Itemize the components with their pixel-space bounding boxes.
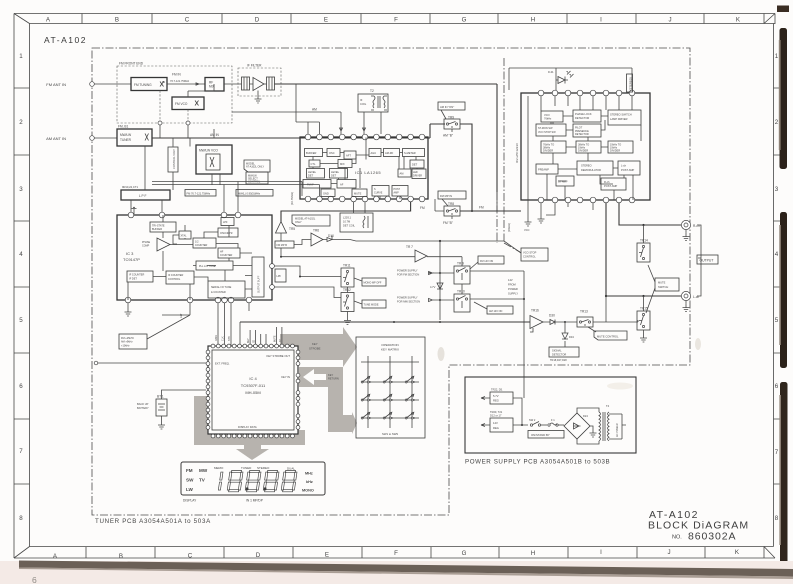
svg-text:STEREO SWITCH: STEREO SWITCH bbox=[610, 113, 632, 117]
svg-text:MONO: MONO bbox=[302, 489, 314, 493]
label boxed fm range bbox=[185, 190, 216, 197]
wire FM MPX from IC1 bbox=[281, 202, 425, 222]
svg-text:14V: 14V bbox=[493, 421, 498, 425]
svg-text:F: F bbox=[394, 17, 398, 24]
IC4 bottom pins bbox=[211, 434, 294, 438]
svg-text:9R10,22,CT1: 9R10,22,CT1 bbox=[122, 185, 138, 189]
svg-text:FM MP IN: FM MP IN bbox=[440, 194, 452, 198]
svg-text:4: 4 bbox=[19, 251, 23, 258]
wire vco connections bbox=[173, 129, 220, 185]
svg-text:KEY IN: KEY IN bbox=[281, 375, 290, 379]
power supply pcb outline bbox=[465, 377, 636, 453]
lpf box right of IC3 bbox=[275, 269, 286, 282]
svg-text:TR6: TR6 bbox=[313, 229, 319, 233]
svg-text:STEREO: STEREO bbox=[581, 164, 592, 168]
switch TR9 am ant bbox=[443, 116, 460, 138]
svg-text:14V: 14V bbox=[508, 278, 513, 282]
svg-text:TC9307F-011: TC9307F-011 bbox=[241, 383, 266, 388]
MW/LW VCO block bbox=[196, 145, 232, 174]
svg-text:OPERATION: OPERATION bbox=[381, 343, 398, 347]
IC1 level det 1 bbox=[307, 169, 325, 179]
ground IF filter bbox=[255, 91, 262, 104]
svg-text:VCC: VCC bbox=[524, 228, 530, 232]
IC3 hf counter bbox=[218, 248, 240, 258]
amp TR7 bbox=[406, 245, 427, 262]
battery BT1 bbox=[137, 395, 167, 417]
IC1 agc block bbox=[369, 149, 381, 157]
IC1 fm if block bbox=[303, 180, 331, 189]
corner diagonal bottom-right bbox=[764, 547, 775, 559]
scan binding bar top mark bbox=[777, 6, 789, 13]
zener D34 bbox=[562, 321, 574, 344]
mixer block MIX bbox=[205, 78, 224, 92]
svg-text:AFT: AFT bbox=[346, 154, 351, 158]
svg-text:FM TUNING: FM TUNING bbox=[134, 83, 152, 87]
IC2 L-ch post amp bbox=[618, 161, 640, 175]
wire TR5 to fm mp b bbox=[280, 233, 282, 241]
svg-text:FM: FM bbox=[186, 468, 193, 473]
svg-text:4: 4 bbox=[775, 251, 779, 258]
scan binding bar 1 bbox=[779, 28, 787, 169]
svg-text:5: 5 bbox=[775, 317, 779, 324]
wire top loop bbox=[509, 68, 632, 90]
callout am 14v on bbox=[474, 302, 513, 314]
svg-text:VCO: VCO bbox=[544, 113, 550, 117]
IC2 top pins bbox=[538, 90, 635, 96]
white key return arrow bbox=[303, 369, 339, 385]
svg-text:TR5: TR5 bbox=[289, 227, 295, 231]
svg-text:POST AMP: POST AMP bbox=[621, 168, 634, 172]
svg-text:IC 3: IC 3 bbox=[126, 251, 134, 256]
svg-text:NO.: NO. bbox=[672, 535, 682, 541]
svg-text:4.7V: 4.7V bbox=[430, 285, 436, 289]
note model AT-A102L only bbox=[244, 160, 270, 172]
wire TR9 out bbox=[460, 124, 472, 211]
wire IC2 pin3 stub bbox=[546, 203, 555, 215]
svg-text:SWITCH: SWITCH bbox=[658, 285, 668, 289]
svg-text:AM:+9kHz: AM:+9kHz bbox=[121, 341, 133, 344]
IC2 bottom pins bbox=[538, 197, 635, 203]
regulator 5V block bbox=[481, 388, 513, 405]
svg-text:TR18,D27,D28: TR18,D27,D28 bbox=[550, 359, 567, 362]
IC3 output buffer vertical bbox=[252, 257, 264, 297]
svg-text:TR 7: TR 7 bbox=[406, 245, 413, 249]
svg-text:R-ch: R-ch bbox=[604, 180, 610, 184]
callout AM IN ON bbox=[438, 102, 465, 119]
FM FRONT END dashed enclosure bbox=[117, 62, 232, 124]
note model only IC1 bbox=[292, 215, 330, 226]
IC3 serial io tune counter bbox=[208, 281, 245, 298]
ground IC3 bottom left bbox=[125, 303, 132, 316]
svg-text:D30: D30 bbox=[549, 314, 555, 318]
title number bbox=[672, 531, 736, 543]
IC2 R-ch post amp bbox=[601, 178, 626, 190]
freq note box bbox=[119, 315, 190, 349]
svg-text:AMP: AMP bbox=[394, 192, 400, 195]
svg-text:KEY MATRIX: KEY MATRIX bbox=[381, 348, 399, 352]
svg-text:ST AMP: ST AMP bbox=[558, 180, 568, 184]
scan binding bar 3 bbox=[779, 382, 787, 578]
IC3 right pins bbox=[270, 264, 275, 290]
svg-text:(STEREO): (STEREO) bbox=[629, 77, 633, 90]
svg-text:C: C bbox=[188, 553, 193, 560]
svg-text:KEY: KEY bbox=[328, 373, 333, 377]
display digit 8 first bbox=[227, 471, 243, 492]
svg-text:B: B bbox=[115, 17, 119, 24]
key switch SW6 bbox=[405, 394, 415, 401]
IC2 38-19 divider bbox=[576, 141, 601, 153]
key switch SW3 bbox=[405, 376, 415, 383]
MW/LW tuner block bbox=[117, 125, 152, 147]
svg-text:POST AMP: POST AMP bbox=[604, 184, 617, 188]
svg-text:MW: MW bbox=[199, 468, 208, 473]
svg-text:D12 or 17: D12 or 17 bbox=[490, 414, 502, 418]
svg-text:MW/LW VCO: MW/LW VCO bbox=[199, 149, 218, 153]
IC1 det block bbox=[410, 160, 424, 168]
IC3 phase comp triangle bbox=[142, 238, 170, 251]
svg-text:MH-05M: MH-05M bbox=[245, 390, 260, 395]
svg-text:COUNTER: COUNTER bbox=[195, 244, 208, 247]
svg-text:2: 2 bbox=[19, 119, 23, 126]
svg-text:IF DET: IF DET bbox=[129, 278, 137, 281]
svg-text:IF COUNTER: IF COUNTER bbox=[168, 274, 183, 277]
svg-text:COUNTER: COUNTER bbox=[220, 254, 233, 257]
svg-text:CTL: CTL bbox=[311, 162, 316, 166]
wire FM IF out bbox=[275, 84, 498, 192]
gray display arrowhead bbox=[244, 445, 261, 450]
svg-text:TR8: TR8 bbox=[448, 202, 454, 206]
svg-text:LEVEL: LEVEL bbox=[308, 170, 317, 174]
label power supply fm section bbox=[397, 269, 440, 277]
key matrix grid lines bbox=[361, 356, 419, 428]
svg-text:AM IN: AM IN bbox=[210, 133, 220, 137]
key switch SW9 bbox=[405, 412, 415, 419]
svg-text:IC2 uPC1223V: IC2 uPC1223V bbox=[515, 143, 519, 163]
wire AM label run bbox=[232, 108, 341, 113]
left grid tick marks bbox=[14, 88, 30, 484]
junction circles front end bottom bbox=[158, 121, 190, 138]
svg-text:IF FILTER: IF FILTER bbox=[247, 64, 262, 68]
svg-text:3: 3 bbox=[19, 186, 23, 193]
svg-text:FM 76.7-121.75MHz: FM 76.7-121.75MHz bbox=[187, 191, 211, 195]
svg-text:L-ch: L-ch bbox=[621, 164, 627, 168]
svg-text:F: F bbox=[394, 550, 398, 557]
terminal AM ANT IN bbox=[46, 136, 94, 141]
svg-text:E: E bbox=[325, 552, 329, 559]
ceramic filter 1 bbox=[242, 77, 250, 90]
svg-text:KEY: KEY bbox=[248, 338, 250, 343]
wire mute rail bbox=[240, 321, 530, 346]
svg-text:8: 8 bbox=[19, 515, 23, 522]
svg-text:OSC: OSC bbox=[329, 151, 335, 155]
wire vco control bbox=[160, 91, 188, 124]
svg-text:VCO STOP SW: VCO STOP SW bbox=[538, 131, 556, 134]
svg-text:DET: DET bbox=[308, 174, 314, 178]
svg-text:FOR FM SECTION: FOR FM SECTION bbox=[397, 273, 419, 277]
terminal FM ANT IN bbox=[46, 82, 94, 87]
wire fm if to TR8 bbox=[435, 192, 497, 211]
terminal L-ch output bbox=[681, 291, 699, 311]
svg-text:FM FRONT END: FM FRONT END bbox=[119, 62, 144, 66]
label stereo vertical bbox=[627, 74, 633, 92]
svg-text:CURVE: CURVE bbox=[374, 192, 383, 195]
svg-text:DISPLAY DATA: DISPLAY DATA bbox=[238, 425, 257, 429]
wire to IC4 left bbox=[94, 361, 206, 365]
svg-text:T2: T2 bbox=[370, 89, 374, 93]
svg-text:DIVIDER: DIVIDER bbox=[610, 150, 620, 153]
key switch SW8 bbox=[383, 412, 393, 419]
IC3 tri-state buffer bbox=[150, 222, 176, 232]
svg-text:IC 4: IC 4 bbox=[249, 376, 257, 381]
svg-text:AM ANT IN: AM ANT IN bbox=[46, 136, 66, 141]
wire lpf down bbox=[131, 146, 173, 214]
switch TR10 am14v bbox=[454, 290, 470, 313]
signal detector box bbox=[549, 344, 579, 362]
svg-text:MUTE: MUTE bbox=[275, 335, 277, 342]
svg-text:AC POWER: AC POWER bbox=[616, 423, 619, 437]
label power supply mw section bbox=[397, 296, 440, 304]
IC2 st amp bbox=[556, 176, 574, 186]
IC4 left pins bbox=[206, 350, 210, 429]
callout FM MP IN bbox=[438, 191, 466, 206]
callout tune mode bbox=[354, 300, 386, 308]
display panel body bbox=[181, 462, 325, 495]
svg-text:STROBE: STROBE bbox=[309, 346, 321, 350]
switch TR12 bbox=[341, 288, 354, 312]
svg-text:EXT. FREQ.: EXT. FREQ. bbox=[215, 362, 230, 366]
svg-text:I: I bbox=[600, 17, 602, 24]
svg-text:76.7-121.75MHz: 76.7-121.75MHz bbox=[170, 79, 190, 83]
label from power supply bbox=[508, 278, 518, 296]
svg-text:FM, B1: FM, B1 bbox=[118, 125, 128, 129]
svg-text:FOR MW SECTION: FOR MW SECTION bbox=[397, 300, 420, 304]
IF filter dashed enclosure bbox=[238, 64, 281, 97]
svg-text:VCO STOP: VCO STOP bbox=[523, 251, 537, 255]
wire TR7 run bbox=[280, 256, 462, 266]
svg-text:TR14: TR14 bbox=[640, 239, 648, 243]
svg-text:DIVIDER: DIVIDER bbox=[543, 150, 553, 153]
svg-text:L203.1: L203.1 bbox=[343, 216, 351, 220]
IC1 LA1265 body bbox=[300, 137, 428, 199]
top grid tick marks bbox=[82, 14, 704, 24]
gray bottom band bbox=[194, 430, 305, 445]
svg-text:BT 1: BT 1 bbox=[157, 395, 164, 399]
IC2 76-38 divider bbox=[541, 141, 566, 153]
wire TR11 TR12 feeds bbox=[274, 266, 351, 325]
svg-text:DETECTOR: DETECTOR bbox=[552, 352, 566, 356]
switch TR14 bbox=[637, 239, 650, 263]
switch SW2 bbox=[529, 418, 547, 426]
svg-text:BATTERY: BATTERY bbox=[137, 406, 149, 410]
svg-text:G: G bbox=[462, 17, 467, 24]
wire if coil to IC1 pins bbox=[340, 112, 382, 134]
svg-text:POWER: POWER bbox=[508, 287, 518, 291]
IC4 name label bbox=[241, 376, 266, 395]
svg-text:OUTPUT BUFF: OUTPUT BUFF bbox=[258, 275, 261, 293]
IC3 bottom pins bbox=[125, 297, 252, 303]
svg-text:TR12: TR12 bbox=[343, 288, 351, 292]
corner diagonal bottom-left bbox=[14, 547, 30, 559]
switch TR13 bbox=[565, 310, 638, 328]
wire fm mp b down bbox=[281, 240, 311, 257]
svg-text:J: J bbox=[668, 17, 671, 24]
display digit 1 bbox=[218, 472, 223, 490]
svg-text:DATA: DATA bbox=[215, 335, 218, 341]
svg-text:ALT: ALT bbox=[179, 313, 183, 318]
svg-text:D10: D10 bbox=[328, 234, 334, 238]
svg-text:SUPPLY: SUPPLY bbox=[508, 292, 518, 296]
svg-text:IN 1 MP/DP: IN 1 MP/DP bbox=[246, 499, 263, 503]
control voltage block bbox=[168, 147, 178, 172]
IC3 osc block bbox=[218, 228, 238, 237]
IC2 stereo switch lamp driver bbox=[608, 110, 641, 125]
svg-text:ONLY: ONLY bbox=[295, 221, 302, 224]
IC4 top stubs bbox=[248, 327, 282, 344]
key switch SW2 bbox=[383, 376, 393, 383]
output bracket bbox=[697, 225, 718, 296]
svg-text:I: I bbox=[600, 549, 602, 556]
svg-text:FM "B": FM "B" bbox=[443, 221, 453, 225]
svg-text:DET COIL: DET COIL bbox=[343, 224, 355, 228]
key switch SW1 bbox=[361, 376, 371, 383]
bottom band soft edge bbox=[19, 568, 793, 580]
display unit labels right bbox=[302, 472, 314, 493]
paper smudge marks bbox=[438, 338, 702, 390]
IC1 osc block bbox=[327, 149, 340, 157]
svg-text:XTAL: XTAL bbox=[181, 235, 188, 238]
switch TR11 bbox=[341, 264, 354, 288]
svg-text:8: 8 bbox=[775, 515, 779, 522]
IC3 label bbox=[123, 251, 140, 262]
svg-text:FM VCO: FM VCO bbox=[175, 102, 188, 106]
svg-text:AM-RF: AM-RF bbox=[385, 151, 394, 155]
display digit 8 third bbox=[263, 471, 279, 492]
mute control box bbox=[588, 327, 627, 340]
IC3 top pins bbox=[128, 212, 241, 218]
IC3 pll lo tune bbox=[196, 261, 233, 270]
svg-text:AM: AM bbox=[400, 172, 404, 176]
svg-text:FM 14V ON: FM 14V ON bbox=[480, 260, 493, 263]
svg-text:7: 7 bbox=[775, 449, 779, 456]
svg-text:& COUNTER: & COUNTER bbox=[211, 291, 226, 294]
key switch SW4 bbox=[361, 394, 371, 401]
top grid letters A-K bbox=[46, 17, 741, 24]
IC1 am if block bbox=[337, 180, 356, 189]
svg-text:D: D bbox=[255, 17, 260, 24]
IC1 ctl block bbox=[309, 160, 320, 167]
svg-text:DRIVER: DRIVER bbox=[413, 175, 422, 178]
callout fm mp b bbox=[275, 241, 294, 248]
svg-text:KEY STROBE OUT: KEY STROBE OUT bbox=[266, 354, 290, 358]
svg-text:TR22, D5.: TR22, D5. bbox=[491, 388, 503, 392]
svg-text:D24: D24 bbox=[583, 414, 588, 418]
IC4 TC9307F body bbox=[208, 346, 298, 434]
svg-text:CONTROL VOLT: CONTROL VOLT bbox=[172, 149, 176, 169]
svg-text:LPF: LPF bbox=[277, 275, 282, 278]
svg-text:(19kHz): (19kHz) bbox=[507, 223, 511, 232]
switch TR15 bbox=[637, 307, 650, 343]
label boxed mw range bbox=[236, 190, 273, 197]
wire bus IC3 to IC4 bbox=[215, 303, 249, 346]
IC1 led driver block bbox=[412, 169, 426, 179]
wire supply rail above IC3 bbox=[152, 182, 319, 215]
svg-text:6: 6 bbox=[19, 383, 23, 390]
svg-text:DISPLAY: DISPLAY bbox=[183, 499, 197, 503]
amp TR5 bbox=[276, 222, 296, 234]
wire mix to filter bbox=[224, 83, 267, 85]
svg-text:AF: AF bbox=[340, 183, 344, 187]
svg-text:D-01: D-01 bbox=[548, 70, 554, 74]
svg-text:SERIAL I/O TUNE: SERIAL I/O TUNE bbox=[211, 286, 232, 289]
vco stop control box bbox=[521, 248, 548, 261]
svg-text:TUNE MODE: TUNE MODE bbox=[364, 304, 379, 307]
svg-text:SW1 to SW9: SW1 to SW9 bbox=[382, 432, 398, 436]
svg-text:TUNER: TUNER bbox=[120, 138, 132, 142]
IC4 right pins bbox=[296, 350, 300, 429]
svg-text:KEY: KEY bbox=[312, 342, 318, 346]
svg-text:OUTPUT: OUTPUT bbox=[700, 259, 714, 263]
svg-text:MIX: MIX bbox=[340, 162, 345, 166]
svg-text:CONTROL: CONTROL bbox=[168, 278, 181, 281]
key switch SW7 bbox=[361, 412, 371, 419]
svg-text:MHz: MHz bbox=[305, 472, 313, 476]
svg-text:TUNER PCB A3054A501A to 50: TUNER PCB A3054A501A to 503A bbox=[95, 518, 211, 525]
svg-text:MUTE: MUTE bbox=[354, 191, 362, 195]
svg-text:IF COUNTER: IF COUNTER bbox=[129, 274, 144, 277]
IC1 post amp block bbox=[392, 186, 408, 197]
svg-text:LPF: LPF bbox=[223, 221, 228, 224]
svg-text:1: 1 bbox=[19, 53, 23, 60]
ground bridge bbox=[590, 426, 597, 437]
IC3 half counter bbox=[193, 238, 216, 248]
wire TR13 to TR15 bbox=[637, 320, 639, 322]
svg-text:ON/STAND BY: ON/STAND BY bbox=[531, 433, 550, 437]
IC3 if counter if det bbox=[127, 271, 153, 282]
svg-text:FM IN: FM IN bbox=[172, 73, 181, 77]
wire R-ch feed bbox=[619, 203, 681, 243]
svg-text:CLK: CLK bbox=[222, 336, 225, 341]
IC1 top pins bbox=[305, 134, 425, 140]
amp TR6 bbox=[311, 229, 323, 247]
IC2 phase lock detector bbox=[573, 110, 601, 122]
svg-text:ST-MON SW: ST-MON SW bbox=[538, 127, 553, 130]
IC1 buffer block bbox=[305, 149, 323, 157]
IC2 internal wires bbox=[541, 96, 641, 200]
IC2 pilot presence detector bbox=[573, 124, 601, 137]
display decimal point 2 bbox=[264, 488, 267, 491]
display band labels left bbox=[186, 468, 208, 492]
svg-text:AT-A102: AT-A102 bbox=[44, 35, 87, 45]
svg-text:MIX: MIX bbox=[209, 85, 216, 89]
svg-text:COMP: COMP bbox=[142, 245, 150, 248]
svg-text:MW/LW: MW/LW bbox=[120, 133, 131, 137]
svg-text:1: 1 bbox=[775, 53, 779, 60]
zener diode 4.7V bbox=[430, 241, 443, 323]
display band labels top bbox=[214, 466, 295, 471]
svg-text:D34: D34 bbox=[569, 335, 574, 339]
svg-text:DETECTOR: DETECTOR bbox=[575, 116, 589, 120]
ground IC2 left bbox=[524, 96, 532, 232]
IC3 internal wires bbox=[128, 215, 252, 300]
svg-text:TR10: TR10 bbox=[457, 290, 465, 294]
tuner PCB dash-dot boundary bbox=[92, 48, 690, 515]
scan binding bar 2 bbox=[779, 212, 787, 368]
svg-text:C: C bbox=[185, 17, 190, 24]
svg-text:DETECTOR: DETECTOR bbox=[575, 133, 589, 136]
svg-text:FM ANT IN: FM ANT IN bbox=[46, 82, 66, 87]
svg-text:AM "B": AM "B" bbox=[443, 134, 453, 138]
svg-text:SIGNAL: SIGNAL bbox=[552, 349, 562, 353]
